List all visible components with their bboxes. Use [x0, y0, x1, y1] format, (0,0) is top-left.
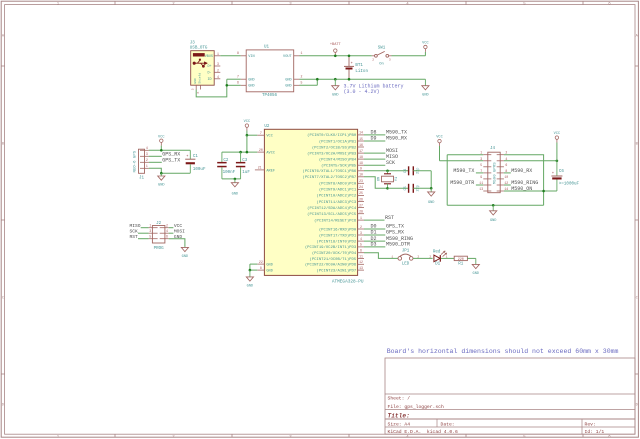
svg-text:GND: GND — [232, 192, 238, 196]
svg-text:D1: D1 — [435, 263, 441, 267]
svg-text:7: 7 — [260, 131, 262, 135]
svg-text:PROG: PROG — [154, 247, 165, 251]
svg-text:GND: GND — [332, 93, 338, 97]
svg-text:VCC: VCC — [174, 223, 183, 229]
svg-text:(PCINT18/INT0)PD2: (PCINT18/INT0)PD2 — [316, 239, 356, 244]
svg-text:(3.0 - 4.2V): (3.0 - 4.2V) — [344, 89, 380, 95]
svg-text:(PCINT19/OC2B/INT1)PD3: (PCINT19/OC2B/INT1)PD3 — [305, 245, 357, 250]
svg-text:VOUT: VOUT — [283, 55, 292, 59]
svg-text:GND: GND — [248, 79, 254, 83]
svg-text:GND: GND — [428, 201, 434, 205]
wire avcc rail — [222, 151, 257, 153]
svg-text:M590_ON: M590_ON — [511, 186, 532, 192]
svg-text:15: 15 — [359, 137, 363, 141]
label VCC (isp) — [169, 227, 174, 229]
svg-text:12: 12 — [504, 181, 508, 185]
svg-text:7: 7 — [480, 169, 482, 173]
svg-text:(PCINT7/XTAL2/TOSC2)PB7: (PCINT7/XTAL2/TOSC2)PB7 — [302, 175, 356, 180]
wire resistor to gnd — [467, 257, 475, 259]
svg-text:(PCINT22/OC0A/AIN0)PD6: (PCINT22/OC0A/AIN0)PD6 — [305, 263, 357, 268]
svg-text:SW1: SW1 — [378, 47, 386, 51]
svg-text:21: 21 — [258, 166, 262, 170]
svg-text:D-: D- — [208, 72, 212, 76]
capacitor C3 1uF — [240, 152, 242, 162]
svg-text:GND: GND — [285, 85, 291, 89]
gnd below U1 — [334, 79, 336, 86]
svg-text:SCK: SCK — [130, 228, 139, 234]
wire U2 gnd pins — [250, 263, 257, 265]
svg-text:VCC: VCC — [436, 136, 442, 140]
gnd below J2 — [184, 246, 186, 249]
svg-text:13: 13 — [359, 266, 363, 270]
svg-text:6: 6 — [505, 163, 507, 167]
wire D0 GPS_TX — [364, 228, 385, 230]
wire xtal2 jog — [364, 177, 388, 189]
capacitor C1 100uF — [189, 150, 191, 159]
svg-text:M590_RX: M590_RX — [511, 168, 532, 174]
svg-text:25: 25 — [359, 191, 363, 195]
label MISO (isp) — [141, 227, 149, 229]
svg-text:23: 23 — [359, 179, 363, 183]
junction gnd stem U1 — [334, 78, 337, 81]
svg-text:3: 3 — [389, 58, 391, 61]
gnd below C2 C3 — [234, 179, 236, 183]
junction xtal1 — [386, 170, 389, 173]
svg-text:TP4056: TP4056 — [262, 94, 278, 98]
svg-text:(PCINT17/TXD)PD1: (PCINT17/TXD)PD1 — [319, 233, 357, 238]
svg-text:10: 10 — [359, 173, 363, 177]
gnd below J1 — [160, 173, 162, 176]
svg-text:100nF: 100nF — [223, 171, 236, 175]
gnd below J4 — [492, 205, 494, 211]
wire switch to VCC — [392, 55, 426, 57]
svg-text:MISO: MISO — [130, 223, 141, 229]
junction m590 gnd stem — [492, 204, 495, 207]
svg-text:AREF: AREF — [266, 169, 275, 173]
connector J1 NEO-6 GPS — [139, 149, 145, 173]
svg-text:9: 9 — [360, 167, 362, 171]
svg-text:J1: J1 — [139, 177, 145, 181]
wire label RST — [364, 219, 385, 221]
svg-text:3: 3 — [360, 231, 362, 235]
svg-text:USB_OTG: USB_OTG — [190, 47, 208, 51]
resistor R1 220 — [454, 256, 467, 260]
svg-text:24: 24 — [359, 185, 363, 189]
wire VOUT rail to switch — [300, 55, 372, 57]
wire m590 pin3 vcc — [440, 160, 484, 162]
svg-text:VCC: VCC — [554, 132, 560, 136]
svg-text:8: 8 — [505, 169, 507, 173]
svg-text:Red: Red — [433, 249, 441, 254]
junction usb gnd — [226, 84, 229, 87]
svg-text:>=1000uF: >=1000uF — [559, 182, 580, 187]
svg-text:C: C — [2, 297, 4, 301]
junction m590 vcc c6 — [556, 160, 559, 163]
wire pd4 to jumper — [364, 253, 398, 259]
connector J2 PROG — [152, 226, 165, 244]
capacitor C4 22p — [408, 166, 410, 175]
svg-text:Id: 1/1: Id: 1/1 — [585, 429, 605, 435]
svg-text:26: 26 — [359, 197, 363, 201]
wire xtal2 rail — [388, 187, 409, 189]
svg-text:M590_TX: M590_TX — [386, 130, 407, 136]
power flag VCC (m590 left) — [439, 143, 441, 146]
U2 left pins — [257, 134, 264, 136]
frame row ticks and letters — [1, 65, 4, 67]
svg-text:VIN: VIN — [248, 55, 254, 59]
svg-text:GND: GND — [248, 85, 254, 89]
svg-text:5: 5 — [192, 88, 195, 90]
wire m590 left vertical — [446, 155, 448, 206]
svg-text:(PCINT6/XTAL1/TOSC1)PB6: (PCINT6/XTAL1/TOSC1)PB6 — [302, 169, 356, 174]
svg-text:5: 5 — [301, 81, 303, 85]
svg-text:Y1: Y1 — [395, 177, 399, 181]
power flag VCC (gps) — [160, 142, 162, 145]
svg-text:GND: GND — [247, 285, 253, 289]
gnd after R1 — [475, 258, 477, 264]
svg-text:8: 8 — [237, 51, 239, 55]
label RST (isp) — [138, 238, 149, 240]
junction pin5 riser — [316, 78, 319, 81]
svg-text:100uF: 100uF — [193, 168, 206, 172]
svg-text:J2: J2 — [156, 222, 162, 226]
svg-text:4: 4 — [146, 146, 148, 150]
svg-text:11: 11 — [359, 254, 363, 258]
svg-text:D+: D+ — [208, 65, 212, 69]
svg-text:1: 1 — [360, 216, 362, 220]
svg-text:4: 4 — [360, 237, 362, 241]
wire D8 M590_TX — [364, 134, 385, 136]
capacitor C5 22p — [408, 184, 410, 193]
svg-text:RST: RST — [130, 234, 139, 240]
junction m590 on c6 — [542, 190, 545, 193]
svg-text:Rev:: Rev: — [585, 422, 596, 428]
connector J4 M590 GPRS — [488, 152, 500, 193]
svg-text:22: 22 — [259, 260, 263, 264]
battery BT1 LiIon — [348, 56, 350, 67]
junction battery top — [348, 55, 351, 58]
svg-text:AVCC: AVCC — [266, 152, 275, 156]
svg-text:R1: R1 — [458, 263, 464, 267]
label M590_ON (j4) — [504, 190, 544, 192]
wire label MISO — [364, 158, 385, 160]
svg-text:LED: LED — [402, 262, 410, 266]
svg-text:1: 1 — [149, 224, 151, 228]
svg-text:8: 8 — [260, 266, 262, 270]
svg-text:GND: GND — [422, 93, 428, 97]
svg-text:Date:: Date: — [441, 422, 455, 428]
wire D3 M590_DTR — [364, 246, 385, 248]
svg-text:+BATT: +BATT — [330, 43, 342, 47]
junction xtal2 — [386, 187, 389, 190]
svg-text:C4: C4 — [404, 169, 408, 173]
svg-text:(PCINT10/ADC2)PC2: (PCINT10/ADC2)PC2 — [316, 194, 356, 199]
svg-text:D1: D1 — [371, 230, 377, 236]
wire gps vcc rail — [149, 149, 190, 151]
svg-text:D9: D9 — [371, 136, 377, 142]
power flag VCC (mcu) — [246, 127, 248, 130]
svg-text:+: + — [186, 155, 188, 159]
svg-text:2: 2 — [301, 75, 303, 79]
wire vcc down to avcc — [246, 135, 248, 152]
svg-text:GND: GND — [266, 270, 272, 274]
label SCK (isp) — [138, 232, 149, 234]
svg-text:10: 10 — [504, 175, 508, 179]
svg-text:File: gps_logger.sch: File: gps_logger.sch — [388, 404, 444, 410]
svg-text:6: 6 — [166, 235, 168, 239]
wire label SCK — [364, 164, 385, 166]
wire D9 M590_RX — [364, 140, 385, 142]
label MOSI (isp) — [169, 232, 174, 234]
wire led to resistor — [441, 257, 454, 259]
svg-text:1: 1 — [217, 52, 219, 56]
svg-text:GND: GND — [490, 219, 496, 223]
svg-text:U1: U1 — [264, 46, 270, 50]
J3 pins bottom 5 6 — [195, 85, 197, 89]
svg-text:(PCINT5/SCK)PB5: (PCINT5/SCK)PB5 — [321, 164, 357, 169]
svg-text:1: 1 — [480, 151, 482, 155]
capacitor C6 >=1000uF — [556, 161, 558, 176]
svg-text:2: 2 — [360, 225, 362, 229]
svg-text:GPS_RX: GPS_RX — [386, 230, 404, 236]
svg-text:GND: GND — [285, 79, 291, 83]
svg-text:+: + — [351, 62, 353, 66]
svg-text:NEO-6 GPS: NEO-6 GPS — [134, 150, 138, 172]
svg-text:Title:: Title: — [388, 412, 410, 419]
svg-text:2: 2 — [372, 58, 374, 61]
wire m590 pin2 — [504, 155, 544, 206]
usb trident icon — [194, 62, 205, 64]
wire USB gnd loop — [196, 79, 227, 97]
svg-text:Shield: Shield — [197, 73, 201, 84]
junction avcc vert — [246, 151, 249, 154]
svg-text:JP1: JP1 — [402, 250, 410, 254]
svg-text:7: 7 — [237, 75, 239, 79]
svg-text:3: 3 — [480, 157, 482, 161]
label M590_TX (j4) — [476, 172, 483, 174]
U1 pins left 8 7 6 — [241, 55, 247, 57]
switch SW1 On — [372, 55, 375, 57]
svg-text:6: 6 — [197, 92, 200, 94]
svg-text:(PCINT23/AIN1)PD7: (PCINT23/AIN1)PD7 — [316, 268, 356, 273]
svg-text:D: D — [2, 404, 4, 408]
wire c2 c3 gnd rail — [222, 178, 241, 180]
wire caps to gnd vertical — [413, 170, 431, 172]
svg-text:1: 1 — [146, 164, 148, 168]
svg-text:C5: C5 — [404, 186, 408, 190]
svg-text:C: C — [636, 297, 638, 301]
usb plug icon — [193, 53, 205, 56]
svg-text:12: 12 — [359, 260, 363, 264]
frame column ticks and numbers — [114, 1, 116, 4]
svg-text:(PCINT8/ADC0)PC0: (PCINT8/ADC0)PC0 — [319, 182, 357, 187]
svg-text:ATMEGA328-PU: ATMEGA328-PU — [332, 279, 364, 284]
svg-text:BT1: BT1 — [355, 64, 363, 68]
junction battery bottom — [348, 78, 351, 81]
svg-text:14: 14 — [359, 131, 363, 135]
gnd right of battery — [424, 79, 426, 86]
wire vcc to U2 — [247, 134, 257, 136]
svg-text:4: 4 — [217, 75, 219, 79]
svg-text:5: 5 — [149, 235, 151, 239]
svg-text:4: 4 — [505, 157, 507, 161]
wire m590 bottom gnd rail — [447, 204, 543, 206]
junction U2 gnd — [249, 269, 252, 272]
svg-text:+: + — [552, 172, 554, 176]
label M590_RX (j4) — [504, 172, 511, 174]
svg-text:(PCINT13/SCL/ADC5)PC5: (PCINT13/SCL/ADC5)PC5 — [307, 212, 357, 217]
wire D2 M590_RING — [364, 240, 385, 242]
svg-text:VCC: VCC — [244, 120, 250, 124]
wire U1 gnd rail — [300, 78, 426, 80]
svg-text:28: 28 — [359, 210, 363, 214]
svg-text:11: 11 — [479, 181, 483, 185]
svg-text:Board's horizontal dimensions: Board's horizontal dimensions should not… — [387, 348, 619, 355]
svg-text:J3: J3 — [190, 41, 196, 45]
svg-text:KiCad E.D.A. kicad 4.0.6: KiCad E.D.A. kicad 4.0.6 — [388, 429, 459, 435]
junction gnd rail — [234, 178, 237, 181]
svg-text:M590_RX: M590_RX — [386, 136, 407, 142]
svg-text:U2: U2 — [264, 125, 270, 129]
wire D1 GPS_RX — [364, 234, 385, 236]
svg-text:2: 2 — [417, 255, 419, 258]
wire label MOSI — [364, 152, 385, 154]
svg-text:GND: GND — [473, 272, 479, 276]
svg-text:SCK: SCK — [386, 160, 395, 166]
svg-text:3: 3 — [146, 152, 148, 156]
svg-text:8M: 8M — [378, 177, 382, 181]
svg-text:(PCINT1/OC1A)PB1: (PCINT1/OC1A)PB1 — [319, 139, 357, 144]
junction c3 top — [239, 151, 242, 154]
svg-text:13: 13 — [479, 187, 483, 191]
svg-text:C1: C1 — [193, 155, 199, 159]
junction vcc — [246, 134, 249, 137]
regulator U1 TP4056 — [246, 50, 294, 92]
svg-text:Size: A4: Size: A4 — [388, 422, 411, 428]
svg-text:MOSI: MOSI — [174, 228, 185, 234]
wire xtal1 rail — [364, 170, 409, 172]
wire m590 pin1 gnd rail — [447, 154, 483, 156]
gnd below U2 — [249, 270, 251, 277]
junction gps vcc — [160, 149, 163, 152]
svg-text:4: 4 — [166, 229, 168, 233]
svg-text:LiIon: LiIon — [355, 69, 368, 74]
svg-text:RST: RST — [385, 215, 394, 221]
svg-text:18: 18 — [359, 155, 363, 159]
svg-text:(PCINT2/OC1B/SS)PB2: (PCINT2/OC1B/SS)PB2 — [312, 145, 357, 150]
svg-text:1: 1 — [446, 255, 448, 258]
J3 pins right — [214, 55, 220, 57]
svg-text:3: 3 — [149, 229, 151, 233]
wire jumper to led — [413, 257, 433, 259]
svg-text:27: 27 — [359, 203, 363, 207]
svg-text:D: D — [636, 404, 638, 408]
svg-text:ID: ID — [208, 78, 212, 82]
svg-text:On: On — [379, 62, 384, 66]
U1 pins right 1 2 5 — [294, 55, 300, 57]
svg-text:1: 1 — [391, 255, 393, 258]
junction c5 gnd — [430, 187, 433, 190]
wire VBUS to U1 VIN — [220, 55, 240, 57]
svg-text:D8: D8 — [371, 130, 377, 136]
gnd below crystal caps — [430, 188, 432, 192]
wire isp gnd — [169, 239, 185, 247]
svg-text:GND: GND — [266, 264, 272, 268]
junction +BATT — [334, 55, 337, 58]
svg-text:3: 3 — [217, 62, 219, 66]
power flag VCC (battery) — [424, 49, 426, 52]
svg-text:(PCINT20/XCK/T0)PD4: (PCINT20/XCK/T0)PD4 — [312, 251, 357, 256]
svg-text:M590_TX: M590_TX — [453, 168, 474, 174]
svg-text:MISO: MISO — [386, 154, 398, 160]
label M590_RING (j4) — [504, 184, 511, 186]
svg-text:1uF: 1uF — [242, 171, 250, 175]
crystal Y1 8M — [387, 171, 389, 174]
svg-text:VCC: VCC — [158, 135, 164, 139]
svg-text:(PCINT14/RESET)PC6: (PCINT14/RESET)PC6 — [314, 218, 357, 223]
label M590_DTR (j4) — [476, 184, 483, 186]
svg-text:(PCINT0/CLKO/ICP1)PB0: (PCINT0/CLKO/ICP1)PB0 — [307, 133, 357, 138]
svg-text:(PCINT12/SDA/ADC4)PC4: (PCINT12/SDA/ADC4)PC4 — [307, 206, 357, 211]
svg-text:M590_DTR: M590_DTR — [386, 242, 410, 248]
svg-text:C6: C6 — [559, 170, 565, 174]
svg-text:M590_DTR: M590_DTR — [450, 180, 474, 186]
svg-text:6: 6 — [237, 81, 239, 85]
svg-text:5: 5 — [360, 243, 362, 247]
svg-text:(PCINT9/ADC1)PC1: (PCINT9/ADC1)PC1 — [319, 188, 357, 193]
svg-text:J4: J4 — [490, 147, 496, 151]
power flag VCC (m590 right) — [556, 139, 558, 142]
svg-text:220: 220 — [458, 258, 464, 262]
svg-text:(PCINT16/RXD)PD0: (PCINT16/RXD)PD0 — [319, 227, 357, 232]
junction gps gnd — [160, 172, 163, 175]
svg-text:16: 16 — [359, 143, 363, 147]
svg-text:19: 19 — [359, 161, 363, 165]
wire gps pin1 to gnd — [149, 168, 161, 173]
svg-text:6: 6 — [360, 249, 362, 253]
svg-text:17: 17 — [359, 149, 363, 153]
svg-text:20: 20 — [259, 148, 263, 152]
label GPS_TX — [149, 161, 162, 163]
mcu U2 ATMEGA328-PU — [264, 129, 357, 275]
svg-text:D3: D3 — [371, 242, 377, 248]
jumper JP1 LED — [398, 257, 402, 261]
svg-text:VBUS: VBUS — [205, 55, 213, 59]
connector J3 USB_OTG — [191, 51, 215, 85]
title block — [385, 358, 635, 434]
svg-text:1: 1 — [301, 51, 303, 55]
svg-text:(PCINT21/OC0B/T1)PD5: (PCINT21/OC0B/T1)PD5 — [309, 257, 356, 262]
svg-text:2: 2 — [429, 255, 431, 258]
svg-text:(PCINT3/OC2A/MOSI)PB3: (PCINT3/OC2A/MOSI)PB3 — [307, 151, 357, 156]
svg-text:GND: GND — [194, 78, 197, 84]
wire m590 pin4 vcc — [504, 160, 557, 162]
svg-text:14: 14 — [504, 187, 508, 191]
svg-text:GND: GND — [182, 255, 188, 259]
svg-text:Sheet: /: Sheet: / — [388, 395, 411, 401]
svg-text:5: 5 — [480, 163, 482, 167]
svg-text:VCC: VCC — [422, 42, 428, 46]
svg-text:(PCINT4/MISO)PB4: (PCINT4/MISO)PB4 — [319, 157, 357, 162]
svg-text:GPS_TX: GPS_TX — [162, 158, 180, 164]
svg-text:C3: C3 — [242, 159, 248, 163]
wire U1 pin5 riser — [300, 84, 318, 86]
label GPS_RX — [149, 155, 162, 157]
svg-text:VCC: VCC — [266, 135, 272, 139]
svg-text:(PCINT11/ADC3)PC3: (PCINT11/ADC3)PC3 — [316, 200, 356, 205]
svg-text:9: 9 — [480, 175, 482, 179]
svg-text:C2: C2 — [223, 159, 229, 163]
